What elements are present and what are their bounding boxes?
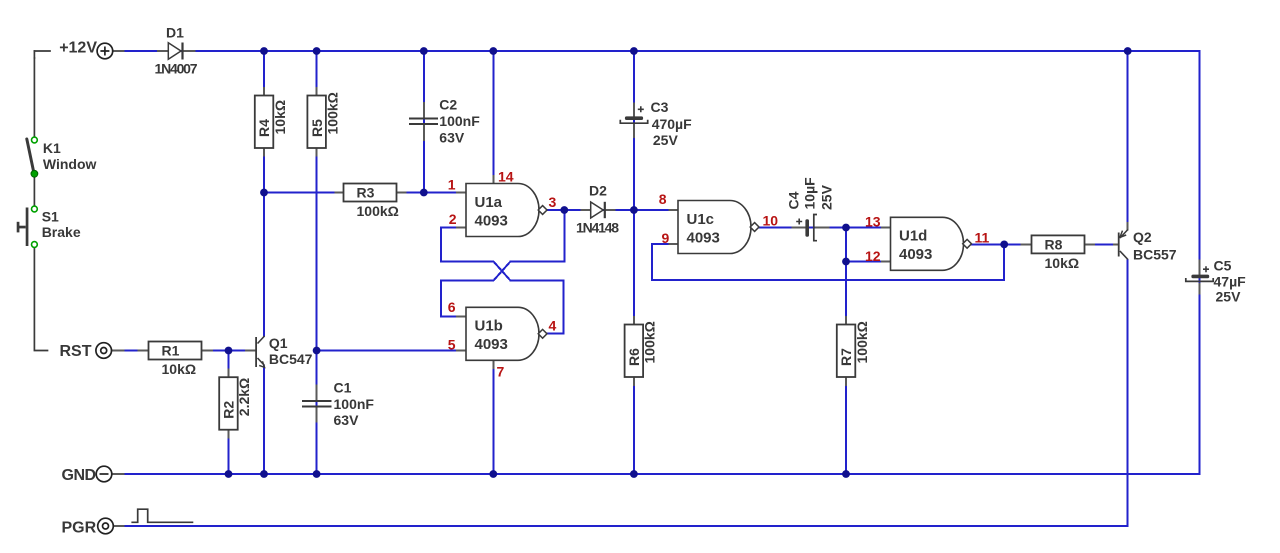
lead D2 cathode bbox=[606, 209, 615, 211]
lead C2 top bbox=[423, 103, 425, 118]
junction Q1 emitter/GND bbox=[260, 470, 268, 478]
button S1 stem bbox=[19, 226, 26, 229]
svg-text:25V: 25V bbox=[653, 132, 679, 148]
wire K1 to S1 (black) bbox=[33, 177, 35, 206]
transistor Q2 emitter arrow bbox=[1120, 231, 1126, 238]
lead C4 right bbox=[816, 227, 828, 229]
lead D1 cathode bbox=[184, 50, 195, 52]
lead R1 box left bbox=[139, 350, 149, 352]
capacitor C3 negative plate bracket bbox=[620, 120, 647, 123]
svg-text:GND: GND bbox=[62, 467, 96, 484]
svg-text:C1: C1 bbox=[334, 380, 352, 396]
lead U1b pin6 bbox=[457, 315, 466, 317]
wire R3 to U1a pin1 bbox=[397, 192, 458, 194]
capacitor C5 positive plate bbox=[1191, 275, 1209, 279]
transistor Q1 emitter arrow bbox=[259, 361, 264, 367]
diode D2 body bbox=[591, 202, 604, 218]
svg-text:7: 7 bbox=[497, 364, 505, 380]
svg-text:PGR: PGR bbox=[62, 520, 97, 537]
junction D2/C3/R6/pin8 bbox=[630, 206, 638, 214]
svg-text:R2: R2 bbox=[221, 401, 237, 419]
wire +12V top bus bbox=[112, 50, 1200, 52]
svg-text:U1a: U1a bbox=[475, 194, 503, 211]
junction R4/R3/Q1 collector bbox=[260, 189, 268, 197]
svg-text:U1b: U1b bbox=[475, 318, 503, 335]
junction R1/R2/Q1 base bbox=[225, 347, 233, 355]
op-amp U1c (NAND gate body) bbox=[678, 201, 751, 254]
svg-text:R3: R3 bbox=[357, 185, 375, 201]
button S1 plunger bar bbox=[26, 208, 29, 247]
U1d output inversion diamond bbox=[963, 239, 972, 248]
svg-text:D2: D2 bbox=[589, 183, 607, 199]
svg-text:12: 12 bbox=[865, 248, 881, 264]
capacitor C3 positive plate bbox=[625, 116, 643, 120]
svg-text:10kΩ: 10kΩ bbox=[272, 100, 288, 135]
svg-text:63V: 63V bbox=[334, 412, 360, 428]
svg-text:10: 10 bbox=[763, 213, 779, 229]
lead R6 top bbox=[633, 317, 635, 325]
wire U1c output through C4 to U1d pin13 bbox=[759, 227, 882, 229]
switch K1 bottom contact bbox=[31, 170, 38, 177]
capacitor C3 plus sign bbox=[638, 106, 644, 112]
lead PGR terminal bbox=[113, 525, 123, 527]
svg-text:9: 9 bbox=[662, 230, 670, 246]
junction R6/GND bbox=[630, 470, 638, 478]
capacitor C4 negative plate bracket bbox=[814, 215, 817, 241]
terminal PGR bbox=[98, 518, 114, 534]
wire R2 branch bbox=[228, 351, 230, 475]
button S1 cap bbox=[17, 222, 20, 233]
resistor R2 body bbox=[219, 377, 238, 430]
svg-text:13: 13 bbox=[865, 214, 881, 230]
lead U1d pin13 bbox=[882, 227, 891, 229]
lead R7 top bbox=[845, 317, 847, 325]
terminal RST bbox=[96, 343, 112, 359]
wire +12V corner (black) bbox=[34, 50, 50, 52]
lead C5 bottom bbox=[1199, 284, 1201, 294]
svg-text:C3: C3 bbox=[651, 99, 669, 115]
lead U1b pin5 bbox=[457, 350, 466, 352]
junction R4/+12V bbox=[260, 47, 268, 55]
svg-text:D1: D1 bbox=[166, 24, 184, 40]
junction C4/pin13/R7 node bbox=[842, 224, 850, 232]
capacitor C4 positive plate bbox=[805, 219, 809, 236]
lead U1c pin8 bbox=[669, 209, 678, 211]
svg-text:10kΩ: 10kΩ bbox=[1045, 255, 1080, 271]
lead R5 bottom bbox=[316, 148, 318, 156]
svg-text:100kΩ: 100kΩ bbox=[854, 321, 870, 363]
capacitor C2 plates bbox=[409, 119, 438, 125]
wire C4/pin13 node down through R7 to GND bbox=[845, 228, 847, 475]
lead C4 left bbox=[792, 227, 805, 229]
wire GND bottom bus bbox=[112, 473, 1200, 475]
svg-text:RST: RST bbox=[60, 343, 92, 360]
lead C5 top bbox=[1199, 260, 1201, 274]
junction R2/GND bbox=[225, 470, 233, 478]
svg-text:K1: K1 bbox=[43, 140, 61, 156]
lead Q1 base bbox=[246, 350, 255, 352]
junction C2/R3/pin1 bbox=[420, 189, 428, 197]
svg-text:S1: S1 bbox=[42, 208, 59, 224]
junction pin14/+12V bbox=[489, 47, 497, 55]
resistor R3 body bbox=[344, 184, 397, 202]
junction R5/+12V bbox=[313, 47, 321, 55]
diode D1 body bbox=[168, 43, 181, 59]
svg-text:4093: 4093 bbox=[687, 229, 720, 246]
svg-text:Brake: Brake bbox=[42, 224, 81, 240]
svg-text:14: 14 bbox=[498, 169, 514, 185]
svg-text:R5: R5 bbox=[309, 119, 325, 137]
resistor R4 body bbox=[255, 96, 273, 149]
wire U1a output through D2 to U1c pin8 bbox=[547, 209, 669, 211]
svg-text:100kΩ: 100kΩ bbox=[324, 92, 340, 134]
junction R5/C1/pin5 bbox=[313, 347, 321, 355]
lead R2 top bbox=[228, 370, 230, 378]
button S1 top contact bbox=[32, 206, 38, 212]
svg-text:BC557: BC557 bbox=[1133, 247, 1177, 263]
lead R4 bottom bbox=[263, 148, 265, 156]
junction U1d output node bbox=[1000, 241, 1008, 249]
svg-text:25V: 25V bbox=[1216, 289, 1242, 305]
junction pin7/GND bbox=[489, 470, 497, 478]
U1b output inversion diamond bbox=[538, 329, 547, 338]
U1c output inversion diamond bbox=[750, 223, 759, 232]
op-amp U1a (NAND gate body) bbox=[466, 184, 539, 237]
junction C1/GND bbox=[313, 470, 321, 478]
capacitor C1 plates bbox=[302, 401, 332, 406]
svg-text:10kΩ: 10kΩ bbox=[162, 361, 197, 377]
svg-text:BC547: BC547 bbox=[269, 351, 313, 367]
svg-text:+12V: +12V bbox=[59, 40, 97, 57]
wire C3 / R6 branch bbox=[633, 51, 635, 474]
wire U1d output feedback to U1c pin9 bbox=[652, 244, 1004, 280]
svg-text:100kΩ: 100kΩ bbox=[357, 203, 399, 219]
wire RST line through R1 to Q1 base bbox=[112, 350, 246, 352]
lead Q2 base bbox=[1114, 243, 1118, 245]
resistor R5 body bbox=[307, 96, 326, 149]
lead R8 right bbox=[1085, 243, 1095, 245]
lead C1 bottom bbox=[316, 407, 318, 421]
svg-text:1N4148: 1N4148 bbox=[576, 219, 619, 235]
lead U1c pin9 bbox=[669, 243, 678, 245]
U1a output inversion diamond bbox=[538, 206, 547, 215]
capacitor C5 plus sign bbox=[1203, 266, 1209, 272]
wire R5 / C1 branch bbox=[316, 51, 318, 474]
lead R3 left bbox=[336, 192, 344, 194]
svg-text:11: 11 bbox=[975, 230, 990, 246]
wire node to U1d pin12 bbox=[846, 261, 882, 263]
svg-text:R8: R8 bbox=[1045, 237, 1063, 253]
junction C2/+12V bbox=[420, 47, 428, 55]
lead U1a pin14 bbox=[492, 176, 494, 184]
svg-text:R1: R1 bbox=[162, 343, 180, 359]
svg-text:C4: C4 bbox=[786, 191, 802, 209]
svg-text:Q1: Q1 bbox=[269, 335, 288, 351]
junction R7/GND bbox=[842, 470, 850, 478]
junction C3/+12V bbox=[630, 47, 638, 55]
terminal GND bbox=[96, 466, 112, 482]
svg-text:25V: 25V bbox=[819, 184, 835, 210]
lead R1 box right bbox=[202, 350, 212, 352]
PGR pulse waveform symbol bbox=[131, 509, 193, 522]
lead Q2 emitter top bbox=[1127, 223, 1129, 230]
svg-text:4093: 4093 bbox=[475, 212, 508, 229]
lead R3 right bbox=[397, 192, 406, 194]
transistor Q2 emitter line bbox=[1120, 230, 1128, 239]
svg-text:2.2kΩ: 2.2kΩ bbox=[236, 378, 252, 416]
lead D2 anode bbox=[582, 209, 591, 211]
transistor Q1 base bar bbox=[255, 337, 257, 367]
lead R4 top bbox=[263, 88, 265, 96]
svg-text:47µF: 47µF bbox=[1214, 273, 1247, 289]
svg-text:R6: R6 bbox=[626, 348, 642, 366]
op-amp U1d (NAND gate body) bbox=[891, 217, 964, 270]
svg-text:Q2: Q2 bbox=[1133, 229, 1152, 245]
junction pin12 node bbox=[842, 258, 850, 266]
op-amp U1b (NAND gate body) bbox=[466, 307, 539, 360]
wire R4 branch / Q1 collector bbox=[263, 51, 265, 336]
capacitor C4 plus sign bbox=[796, 219, 802, 225]
resistor R6 body bbox=[625, 325, 644, 378]
svg-text:1N4007: 1N4007 bbox=[155, 61, 198, 77]
lead U1d pin12 bbox=[882, 261, 891, 263]
lead C3 top bbox=[633, 104, 635, 117]
wire Q1 emitter to GND bbox=[263, 367, 265, 475]
lead U1a pin1 bbox=[457, 192, 466, 194]
wire U1b pin7 to GND bbox=[492, 360, 494, 474]
svg-text:100nF: 100nF bbox=[334, 396, 375, 412]
svg-text:C2: C2 bbox=[439, 97, 457, 113]
svg-text:R4: R4 bbox=[256, 119, 272, 137]
button S1 bottom contact bbox=[32, 242, 38, 248]
lead U1a pin2 bbox=[457, 227, 466, 229]
lead C1 top bbox=[316, 385, 318, 400]
svg-text:6: 6 bbox=[448, 299, 456, 315]
lead R1 left (RST terminal side) bbox=[112, 350, 124, 352]
svg-text:U1c: U1c bbox=[687, 211, 715, 228]
svg-text:R7: R7 bbox=[838, 348, 854, 366]
wire U1a output to U1b pin6 (cross-coupling) bbox=[441, 210, 565, 316]
diode D1 cathode bar bbox=[181, 43, 183, 60]
wire S1 to RST node (black) bbox=[34, 248, 47, 351]
wire node R3-left (R4/Q1 junction to R3) bbox=[264, 192, 344, 194]
transistor Q1 emitter line bbox=[258, 358, 265, 366]
svg-text:4093: 4093 bbox=[475, 336, 508, 353]
resistor R1 body bbox=[149, 342, 202, 360]
diode D2 cathode bar bbox=[604, 202, 606, 218]
lead +12V terminal bbox=[112, 50, 124, 52]
wire Q2 emitter to +12V bbox=[1127, 51, 1129, 229]
svg-text:3: 3 bbox=[549, 194, 557, 210]
lead R5 top bbox=[316, 88, 318, 96]
transistor Q2 base bar bbox=[1118, 233, 1120, 257]
svg-text:4093: 4093 bbox=[899, 246, 932, 263]
junction U1a output node bbox=[560, 206, 568, 214]
svg-text:63V: 63V bbox=[439, 130, 465, 146]
lead D1 anode bbox=[158, 50, 168, 52]
wire U1a pin14 to +12V bbox=[492, 51, 494, 184]
lead R8 left bbox=[1022, 243, 1032, 245]
wire Q2 collector down to PGR line bbox=[123, 260, 1127, 526]
svg-text:470µF: 470µF bbox=[652, 116, 692, 132]
svg-text:2: 2 bbox=[449, 211, 457, 227]
transistor Q1 collector line bbox=[258, 336, 265, 344]
lead GND terminal bbox=[112, 473, 124, 475]
svg-text:U1d: U1d bbox=[899, 228, 927, 245]
svg-text:4: 4 bbox=[549, 318, 557, 334]
svg-text:Window: Window bbox=[43, 156, 97, 172]
switch K1 top contact bbox=[32, 137, 38, 143]
svg-text:5: 5 bbox=[448, 337, 456, 353]
wire U1a pin2 to U1b output (cross-coupling) bbox=[441, 228, 564, 334]
lead R2 bottom bbox=[228, 430, 230, 438]
svg-text:100kΩ: 100kΩ bbox=[642, 321, 658, 363]
svg-text:C5: C5 bbox=[1214, 258, 1232, 274]
wire U1d output through R8 to Q2 base bbox=[972, 243, 1117, 245]
junction Q2 emitter/+12V bbox=[1124, 47, 1132, 55]
wire +12V right edge down through C5 to GND bbox=[1199, 51, 1201, 474]
svg-text:8: 8 bbox=[659, 191, 667, 207]
capacitor C5 negative plate bracket bbox=[1186, 278, 1213, 281]
resistor R8 body bbox=[1032, 235, 1085, 253]
wire C2 branch bbox=[423, 51, 425, 193]
svg-text:1: 1 bbox=[448, 177, 456, 193]
switch K1 blade bbox=[27, 139, 34, 172]
svg-text:100nF: 100nF bbox=[439, 113, 480, 129]
resistor R7 body bbox=[837, 325, 856, 378]
wire +12V to K1 (black) bbox=[33, 58, 35, 137]
terminal +12V bbox=[97, 43, 113, 59]
transistor Q2 collector line bbox=[1120, 251, 1128, 260]
wire C1/R5 node to U1b pin5 bbox=[317, 350, 457, 352]
lead R7 bottom bbox=[845, 378, 847, 386]
lead C3 bottom bbox=[633, 124, 635, 137]
lead R6 bottom bbox=[633, 378, 635, 386]
lead C2 bottom bbox=[423, 125, 425, 140]
vertical black wire upper corner bbox=[33, 51, 35, 58]
lead U1b pin7 bbox=[492, 360, 494, 368]
svg-text:10µF: 10µF bbox=[802, 177, 818, 210]
